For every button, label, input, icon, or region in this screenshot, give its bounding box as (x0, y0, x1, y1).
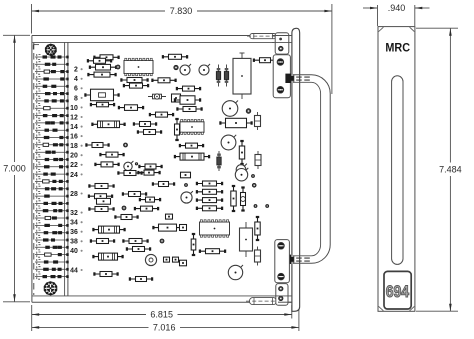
bottom hinge bracket (276, 284, 288, 306)
svg-text:4: 4 (74, 76, 78, 83)
resistor (134, 206, 159, 211)
svg-text:20: 20 (70, 153, 78, 160)
resistor (99, 152, 124, 157)
test point (174, 65, 178, 69)
resistor (123, 83, 149, 88)
svg-text:38: 38 (70, 239, 78, 246)
IC DIP (200, 220, 230, 237)
IC box (174, 96, 201, 104)
dimension .940 panel width (363, 3, 430, 26)
resistor (196, 189, 223, 194)
test point (160, 239, 164, 243)
resistor (199, 249, 226, 254)
resistor (93, 272, 118, 277)
resistor (162, 54, 188, 59)
electrolytic capacitor (240, 222, 253, 257)
resistor (87, 58, 112, 63)
svg-text:2: 2 (74, 67, 78, 74)
resistor (87, 72, 116, 77)
dashed board keep-out line (33, 43, 35, 295)
svg-text:16: 16 (70, 134, 78, 141)
resistor (196, 206, 223, 211)
test point (266, 205, 269, 208)
resistor (89, 64, 117, 70)
faceplate slot (392, 76, 403, 265)
resistor vertical (239, 140, 244, 165)
test point (135, 163, 137, 165)
test point (252, 183, 256, 187)
board bottom edge to faceplate (274, 296, 292, 302)
svg-text:40: 40 (70, 248, 78, 255)
svg-text:694: 694 (386, 282, 410, 301)
svg-text:7.484: 7.484 (439, 164, 462, 174)
resistor vertical (231, 185, 236, 212)
card-edge connector boundary lines (65, 42, 68, 296)
top ejector bracket with screws (273, 55, 290, 98)
connector pin numbers 2-44 (70, 67, 83, 275)
IC box (84, 89, 119, 101)
resistor (176, 86, 201, 91)
svg-text:6.815: 6.815 (150, 310, 173, 320)
resistor (85, 143, 109, 148)
board top edge to faceplate (272, 36, 292, 43)
svg-text:MRC: MRC (385, 41, 410, 55)
svg-text:7.830: 7.830 (170, 6, 193, 16)
mounting screw bottom-left (44, 281, 58, 295)
long device (174, 153, 210, 160)
faceplate front view panel (378, 27, 415, 312)
device (97, 198, 111, 204)
transistor (124, 161, 134, 171)
resistor (151, 78, 176, 83)
power transistor (222, 101, 238, 117)
capacitor (255, 216, 260, 241)
svg-text:8: 8 (74, 95, 78, 102)
capacitor (180, 225, 187, 231)
dimension 6.815 board depth (32, 305, 292, 331)
capacitor (175, 118, 180, 141)
resistor (133, 122, 157, 127)
power transistor (221, 135, 236, 150)
svg-text:22: 22 (70, 162, 78, 169)
resistor (122, 192, 147, 197)
svg-text:12: 12 (70, 114, 78, 121)
capacitor (255, 112, 261, 130)
capacitor (172, 94, 181, 102)
resistor (114, 215, 138, 220)
IC DIP (180, 120, 204, 135)
diode (216, 65, 220, 87)
transformer (233, 53, 251, 99)
test point (124, 143, 128, 147)
resistor (253, 58, 277, 63)
transistor (199, 64, 210, 75)
bottom guide tab (246, 298, 280, 305)
corner alignment mark (33, 45, 39, 50)
svg-text:6: 6 (74, 86, 78, 93)
resistor (118, 105, 144, 111)
diode (224, 65, 228, 87)
device (181, 172, 191, 178)
top guide tab (247, 34, 279, 39)
capacitor (166, 214, 173, 219)
dimension 7.000 board height (3, 35, 30, 302)
transistor (180, 64, 191, 75)
capacitor (164, 257, 170, 262)
module number plate 694 (384, 271, 411, 309)
extraction handle (293, 75, 330, 263)
resistor (196, 181, 223, 186)
resistor (149, 112, 174, 117)
long device (92, 253, 123, 260)
board outline (PCB edge) (32, 36, 292, 303)
resistor (179, 143, 204, 148)
resistor (138, 164, 162, 169)
capacitor (180, 260, 187, 266)
diode (217, 151, 221, 171)
resistor (152, 182, 175, 187)
transistor (181, 191, 193, 203)
handle pivot top (285, 74, 311, 83)
resistor (90, 239, 115, 244)
resistor (126, 247, 151, 252)
MRC logo (385, 41, 410, 55)
transistor (235, 168, 248, 181)
IC DIP (124, 58, 153, 75)
test point (246, 109, 251, 114)
transistor (236, 164, 247, 175)
trimmer (145, 254, 156, 265)
long device (92, 226, 125, 233)
resistor (120, 78, 148, 83)
svg-text:28: 28 (70, 191, 78, 198)
svg-text:7.000: 7.000 (3, 164, 26, 174)
resistor (196, 198, 223, 203)
svg-text:44: 44 (70, 267, 78, 274)
long device (91, 121, 125, 128)
resistor (117, 171, 142, 176)
svg-text:36: 36 (70, 229, 78, 236)
resistor (129, 277, 153, 282)
dimension 7.484 panel height (416, 28, 462, 311)
dimension 7.830 overall depth with handle (32, 4, 332, 94)
diode (241, 186, 246, 211)
handle pivot bottom (285, 255, 311, 264)
test point (252, 175, 255, 178)
svg-text:7.016: 7.016 (153, 323, 176, 333)
capacitor (255, 151, 261, 169)
bottom ejector bracket with screws (275, 240, 290, 283)
relay box (219, 118, 252, 127)
top hinge bracket (275, 33, 289, 54)
mounting screw top-left (45, 44, 57, 56)
svg-text:18: 18 (70, 143, 78, 150)
svg-text:32: 32 (70, 210, 78, 217)
capacitor (255, 247, 261, 266)
device (152, 224, 182, 231)
test point (254, 205, 257, 208)
resistor (122, 239, 148, 244)
test point (122, 206, 126, 210)
test point (185, 184, 188, 187)
resistor (94, 162, 119, 167)
resistor (137, 170, 160, 175)
resistor (137, 130, 162, 135)
capacitor (173, 257, 179, 262)
resistor (88, 184, 114, 189)
resistor (88, 194, 113, 199)
svg-text:34: 34 (70, 220, 78, 227)
resistor (139, 197, 161, 202)
svg-text:10: 10 (70, 105, 78, 112)
svg-text:24: 24 (70, 172, 78, 179)
resistor vertical (191, 233, 196, 256)
dimension 7.016 overall depth with panel (32, 305, 299, 333)
card-edge connector contact rows (35, 54, 69, 279)
svg-text:14: 14 (70, 124, 78, 131)
resistor (176, 107, 202, 112)
svg-text:.940: .940 (388, 3, 406, 13)
diode with body circle (148, 94, 166, 99)
front faceplate (side view) (292, 28, 300, 311)
resistor (88, 207, 114, 212)
test point (116, 65, 120, 69)
resistor (90, 102, 115, 107)
power transistor (228, 265, 243, 280)
resistor (93, 55, 119, 60)
